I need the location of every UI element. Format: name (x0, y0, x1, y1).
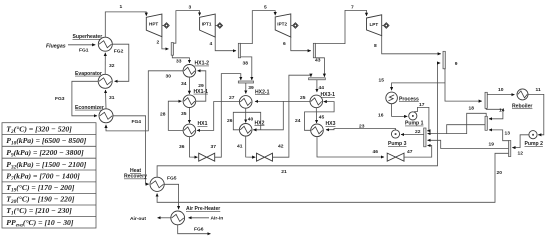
svg-text:Pump 1: Pump 1 (405, 121, 424, 127)
turbine IPT2 (275, 14, 291, 37)
wire 20 (157, 153, 508, 202)
heat exchanger HX2 (239, 124, 252, 137)
turbine LPT (367, 15, 382, 36)
turbine HPT (146, 14, 162, 37)
splitter SA (485, 92, 487, 108)
wire 32 (104, 53, 106, 75)
svg-text:44: 44 (319, 85, 325, 91)
svg-text:P7(kPa) = [700 − 1400]: P7(kPa) = [700 − 1400] (6, 172, 80, 183)
svg-text:FG2: FG2 (114, 48, 124, 54)
turbine IPT1 (200, 14, 216, 37)
svg-text:6: 6 (283, 41, 286, 47)
wire 43 (316, 58, 325, 77)
svg-text:22: 22 (415, 129, 421, 135)
splitter S9 (443, 51, 445, 69)
svg-text:Air-out: Air-out (130, 216, 146, 222)
svg-text:Reboiler: Reboiler (512, 104, 532, 110)
heat exchanger HX2-1 (239, 96, 252, 109)
heat recovery HX (150, 177, 164, 191)
svg-text:29: 29 (198, 83, 204, 89)
svg-text:T19(°C) = [170 − 200]: T19(°C) = [170 − 200] (6, 183, 75, 194)
wire 33 (172, 55, 189, 63)
svg-text:IPT2: IPT2 (277, 22, 287, 27)
svg-text:47: 47 (407, 149, 413, 155)
wire 19 (428, 140, 509, 148)
wire FG3 (72, 81, 98, 116)
process unit (386, 92, 398, 104)
valve V1 (199, 153, 215, 161)
svg-text:T1(°C) = [210 − 230]: T1(°C) = [210 − 230] (6, 206, 72, 217)
mixer M2 (238, 81, 253, 83)
svg-text:30: 30 (166, 74, 172, 80)
wire 26 loop (233, 112, 260, 130)
svg-text:11: 11 (536, 87, 541, 93)
wire 23 (326, 129, 396, 131)
svg-text:T2(°C) = [320 − 520]: T2(°C) = [320 − 520] (6, 124, 72, 135)
svg-text:12: 12 (518, 150, 524, 156)
pump P1 (409, 112, 417, 120)
wire 30 feedwater to economizer (106, 71, 183, 131)
svg-text:4: 4 (210, 41, 213, 47)
wire 40 (245, 108, 247, 122)
svg-text:41: 41 (237, 144, 243, 150)
wire 27 (197, 102, 240, 131)
svg-text:35: 35 (181, 111, 187, 117)
wire 42 (273, 75, 311, 157)
wire 31 (105, 90, 108, 109)
heat exchanger HX1-1 (183, 95, 196, 108)
svg-text:1: 1 (120, 4, 123, 10)
wire FG4 (113, 116, 149, 184)
wire 28 loop (168, 101, 183, 130)
svg-text:7: 7 (351, 4, 354, 10)
wire 21 (157, 63, 440, 177)
wire 8 (382, 36, 441, 54)
splitter S1 (171, 43, 173, 56)
svg-text:16: 16 (378, 112, 384, 118)
splitter S2 (238, 43, 240, 58)
svg-text:LPT: LPT (370, 22, 379, 27)
wire 11 (528, 94, 544, 134)
wire 39 (245, 83, 247, 94)
svg-text:26: 26 (227, 118, 233, 124)
svg-text:23: 23 (359, 123, 365, 129)
svg-text:28: 28 (160, 111, 166, 117)
svg-text:33: 33 (176, 58, 182, 64)
svg-text:15: 15 (379, 77, 385, 83)
svg-text:Fluegas: Fluegas (46, 43, 66, 49)
wire 17 (414, 107, 429, 130)
valve V3 (387, 153, 404, 161)
svg-text:Air Pre-Heater: Air Pre-Heater (186, 206, 220, 212)
pump P3 (391, 130, 399, 138)
superheater SH (98, 37, 112, 51)
wire 35 (188, 108, 190, 124)
wire 45 (315, 108, 317, 123)
svg-text:HX2: HX2 (255, 120, 265, 126)
svg-text:Economizer: Economizer (75, 105, 104, 111)
wire 38 (241, 57, 252, 80)
svg-text:FG6: FG6 (194, 227, 204, 233)
wire 25 (255, 100, 310, 102)
wire 14 (486, 108, 503, 118)
wire 10 (487, 94, 514, 96)
svg-text:9: 9 (455, 61, 458, 67)
wire 12 (512, 135, 529, 148)
svg-text:37: 37 (211, 144, 217, 150)
heat exchanger HX1 (183, 124, 196, 137)
svg-text:39: 39 (248, 85, 254, 91)
heat exchanger HX1-2 (183, 65, 196, 78)
svg-text:14: 14 (499, 108, 505, 114)
wire air-out (158, 217, 171, 219)
svg-text:3: 3 (189, 4, 192, 10)
wire FG1 (68, 44, 95, 46)
svg-text:HX1: HX1 (198, 121, 208, 127)
svg-text:HX1-2: HX1-2 (195, 61, 210, 67)
wire 7 (316, 10, 367, 43)
wire 41 (246, 136, 256, 157)
wire 29 (196, 71, 206, 101)
heat exchanger HX3-1 (310, 95, 323, 108)
svg-text:FG4: FG4 (132, 119, 142, 125)
svg-text:5: 5 (264, 4, 267, 10)
splitter S3 (313, 43, 315, 58)
generator G1 (162, 23, 169, 28)
svg-text:13: 13 (505, 130, 511, 136)
svg-text:34: 34 (181, 81, 187, 87)
wire 13 (489, 130, 509, 141)
parameter table (2, 123, 96, 229)
svg-text:27: 27 (229, 95, 235, 101)
wire 3 (174, 11, 200, 44)
svg-text:24: 24 (295, 118, 301, 124)
generator G2 (215, 23, 222, 28)
svg-text:IPT1: IPT1 (202, 22, 212, 27)
svg-text:Evaporator: Evaporator (75, 71, 102, 77)
svg-text:Process: Process (399, 96, 419, 102)
splitter SD (509, 141, 511, 157)
svg-text:FG5: FG5 (167, 176, 177, 182)
svg-text:18: 18 (469, 106, 475, 112)
svg-text:25: 25 (300, 95, 306, 101)
generator G4 (382, 23, 389, 28)
svg-text:17: 17 (419, 102, 425, 108)
svg-text:P18(kPa) = [6500 − 8500]: P18(kPa) = [6500 − 8500] (6, 136, 86, 147)
reboiler (517, 89, 528, 100)
wire 18a barB left stub (447, 125, 485, 134)
svg-text:HPT: HPT (149, 22, 158, 27)
wire 47 (404, 146, 432, 158)
wire FG5 (164, 184, 178, 209)
svg-text:Pump 2: Pump 2 (525, 141, 544, 147)
generator G3 (291, 23, 298, 28)
wire 5 (241, 11, 276, 44)
svg-text:21: 21 (281, 169, 287, 175)
wire 34 (188, 77, 190, 94)
wire 2 (162, 37, 169, 49)
wire 24 loop (305, 102, 335, 131)
svg-text:P9(kPa) = [2200 − 3800]: P9(kPa) = [2200 − 3800] (6, 148, 84, 159)
valve V2 (257, 153, 273, 161)
svg-text:20: 20 (497, 170, 503, 176)
evaporator EV (98, 74, 112, 88)
svg-text:HX3-1: HX3-1 (321, 92, 336, 98)
svg-text:Recovery: Recovery (124, 174, 147, 180)
wire 37 (215, 74, 241, 158)
pump P2 (529, 131, 537, 139)
svg-text:31: 31 (109, 95, 115, 101)
svg-text:40: 40 (248, 116, 254, 122)
wire 6 (291, 37, 311, 51)
wire 9 (444, 69, 482, 101)
svg-text:2: 2 (157, 40, 160, 46)
wire 18 (428, 113, 487, 133)
mixer FWT (424, 128, 426, 147)
wire 44 (316, 80, 318, 92)
svg-text:38: 38 (243, 61, 249, 67)
svg-text:43: 43 (315, 58, 321, 64)
wire 16 (392, 104, 408, 117)
svg-text:P32(kPa) = [1500 − 2100]: P32(kPa) = [1500 − 2100] (6, 160, 86, 171)
wire 25a branch into HX2 (253, 101, 283, 129)
svg-text:HX3: HX3 (326, 121, 336, 127)
svg-text:19: 19 (489, 142, 495, 148)
svg-text:Superheater: Superheater (73, 34, 103, 40)
economizer EC (99, 109, 113, 123)
wire air-in (189, 217, 210, 219)
wire 36 (189, 137, 197, 158)
svg-text:8: 8 (374, 43, 377, 49)
svg-text:46: 46 (373, 149, 379, 155)
svg-text:Air-in: Air-in (211, 216, 224, 222)
svg-text:Pump 3: Pump 3 (388, 141, 407, 147)
wire 22 (401, 134, 424, 136)
wire 15 (392, 83, 445, 90)
svg-text:FG3: FG3 (55, 96, 65, 102)
wire 1 to HPT (105, 12, 146, 37)
svg-text:FG1: FG1 (79, 48, 89, 54)
wire 4 (215, 37, 236, 51)
mixer SB (485, 116, 487, 130)
mixer M3 (309, 78, 326, 80)
svg-text:32: 32 (109, 63, 115, 69)
svg-text:36: 36 (179, 144, 185, 150)
wire FG2 (112, 44, 129, 81)
svg-text:10: 10 (498, 87, 504, 93)
svg-text:HX2-1: HX2-1 (255, 89, 270, 95)
svg-text:45: 45 (319, 115, 325, 121)
svg-text:42: 42 (278, 144, 284, 150)
svg-text:T20(°C) = [190 − 220]: T20(°C) = [190 − 220] (6, 195, 75, 206)
heat exchanger HX3 (311, 124, 324, 137)
air pre-heater APH (171, 211, 185, 225)
wire 46 (317, 137, 384, 157)
wire FG6 (178, 225, 211, 234)
